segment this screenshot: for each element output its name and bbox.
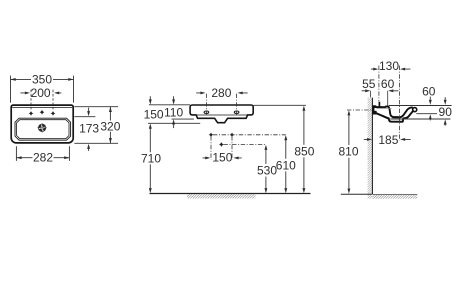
svg-text:173: 173 (79, 122, 99, 136)
svg-text:810: 810 (338, 145, 358, 159)
svg-text:280: 280 (211, 86, 231, 100)
svg-text:350: 350 (32, 73, 52, 87)
svg-text:130: 130 (379, 59, 399, 73)
svg-text:850: 850 (294, 144, 314, 158)
svg-text:710: 710 (141, 152, 161, 166)
svg-text:185: 185 (378, 133, 398, 147)
svg-text:90: 90 (439, 105, 453, 119)
svg-text:150: 150 (212, 151, 232, 165)
svg-text:530: 530 (257, 163, 277, 177)
svg-text:320: 320 (100, 119, 120, 133)
svg-text:200: 200 (31, 86, 51, 100)
svg-text:610: 610 (276, 158, 296, 172)
svg-text:55: 55 (362, 77, 376, 91)
svg-text:60: 60 (422, 85, 436, 99)
svg-text:282: 282 (33, 151, 53, 165)
svg-text:150: 150 (144, 107, 164, 121)
svg-text:60: 60 (381, 77, 395, 91)
svg-text:110: 110 (164, 105, 183, 119)
